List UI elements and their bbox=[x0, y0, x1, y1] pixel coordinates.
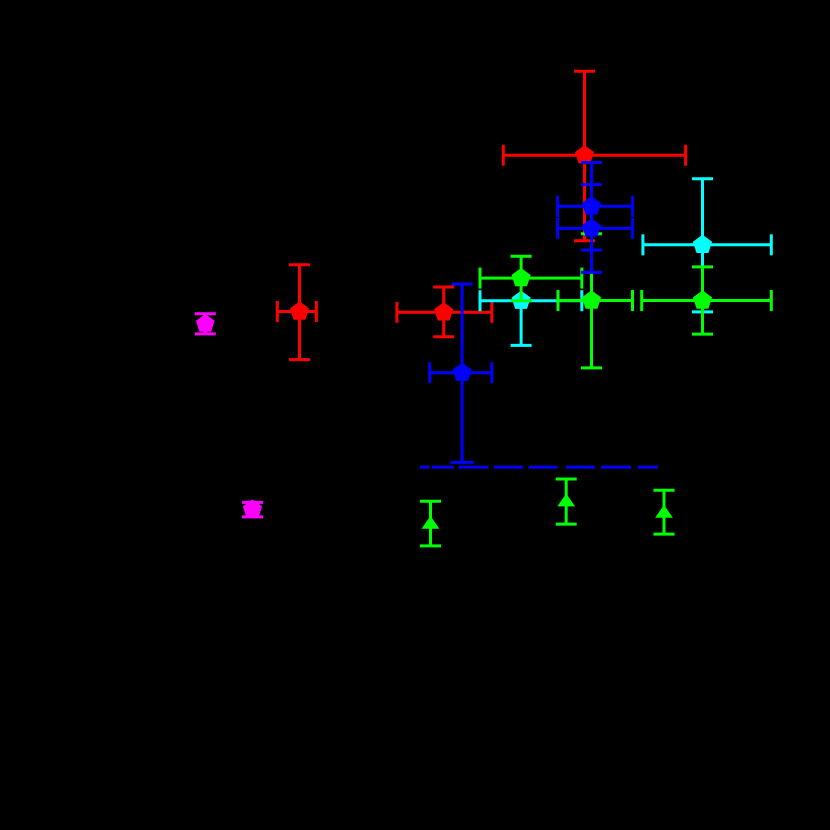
blue pentagon marker 3 bbox=[453, 363, 472, 381]
magenta pentagon marker 1 bbox=[196, 314, 215, 332]
green pentagon marker 1 bbox=[512, 268, 531, 286]
green triangle marker 2 bbox=[557, 494, 575, 507]
red pentagon marker 2 bbox=[434, 302, 453, 320]
green triangle marker 3 bbox=[655, 505, 673, 518]
green pentagon marker 3 bbox=[693, 290, 712, 308]
error bars of blue point 3 bbox=[430, 284, 492, 462]
red pentagon marker 1 bbox=[575, 145, 594, 163]
green pentagon marker 2 bbox=[582, 290, 601, 308]
error bars of cyan point 1 bbox=[480, 290, 582, 345]
error bar of magenta point 2 bbox=[242, 502, 263, 517]
error bars of blue point 1 bbox=[558, 163, 633, 273]
blue pentagon marker 2 bbox=[582, 218, 601, 236]
error bars of blue point 2 bbox=[558, 185, 633, 250]
error bars of red point 3 (left) bbox=[277, 265, 316, 360]
blue pentagon marker 1 bbox=[582, 196, 601, 214]
blue dashed horizontal line (limit) bbox=[420, 466, 658, 469]
error bar of magenta point 1 bbox=[195, 314, 216, 334]
error bars of green point 3 (right) bbox=[642, 267, 772, 334]
red pentagon marker 3 bbox=[290, 301, 309, 319]
error bar of green triangle 3 bbox=[654, 490, 675, 534]
error bar of green triangle 2 bbox=[556, 479, 577, 524]
error bars of green point 1 bbox=[480, 256, 582, 301]
error bars of red point 2 bbox=[397, 287, 492, 337]
cyan pentagon marker 2 bbox=[693, 235, 712, 253]
magenta pentagon marker 2 bbox=[243, 499, 262, 517]
error bar of green triangle 1 bbox=[420, 501, 441, 546]
error bars of green point 2 bbox=[558, 234, 633, 368]
error bars of red point 1 (top) bbox=[503, 71, 685, 241]
green triangle marker 1 bbox=[422, 516, 440, 529]
cyan pentagon marker 1 bbox=[512, 291, 531, 309]
error bars of cyan point 2 (right) bbox=[643, 179, 771, 312]
